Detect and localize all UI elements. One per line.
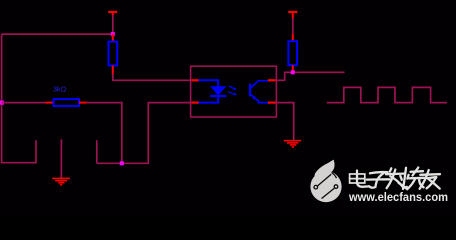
resistor R2 body — [288, 41, 297, 65]
junction node D — [291, 70, 295, 74]
LED D1 triangle — [210, 86, 226, 95]
junction node C — [120, 161, 124, 165]
LED D1 anode wire — [199, 80, 219, 86]
wire left rail down — [1, 34, 3, 163]
logo chinese character fa — [386, 168, 407, 189]
resistor R1 body — [109, 42, 118, 66]
wire VCC2 stem to R2 — [292, 18, 294, 34]
ground GND1 — [52, 178, 70, 184]
junction node A — [111, 32, 115, 36]
Q1 emitter arrowhead — [252, 96, 257, 100]
junction node B — [0, 101, 4, 105]
square wave signal — [327, 87, 447, 102]
logo flame — [314, 160, 336, 179]
resistor R1 lead top — [112, 34, 114, 42]
ground GND2 — [284, 141, 301, 147]
logo chinese character dian — [350, 171, 369, 187]
Q1 collector — [251, 81, 268, 88]
U1 pin 2 cathode stub — [192, 101, 200, 103]
ground GND1 lead — [60, 139, 62, 178]
resistor R3 body — [54, 99, 79, 106]
wire R3 right to node C — [87, 103, 122, 164]
wire bottom row through node C — [97, 162, 149, 164]
logo circle — [310, 171, 341, 202]
logo trace 2 — [322, 188, 335, 198]
U1 pin 3 emitter stub — [268, 101, 276, 103]
Q1 emitter — [251, 95, 268, 103]
svg-text:www.elecfans.com: www.elecfans.com — [348, 190, 448, 204]
phototransistor Q1 base bar — [249, 84, 251, 97]
U1 pin 4 collector stub — [268, 79, 276, 81]
light arrow 1 — [229, 86, 237, 90]
resistor R1 lead bottom — [112, 66, 114, 75]
logo pad 2 — [334, 185, 338, 189]
LED D1 cathode bar — [210, 95, 226, 97]
resistor R2 lead bottom — [292, 65, 294, 72]
resistor R3 lead right — [79, 102, 87, 104]
U1 pin 1 anode stub — [192, 79, 200, 81]
wire stub up at x=96.8 — [96, 140, 98, 163]
wire VCC1 stem to node A — [112, 15, 114, 34]
logo chinese character shao — [400, 168, 424, 190]
logo chinese character you — [420, 170, 440, 189]
logo notch — [331, 173, 336, 179]
wire emitter pin to GND2 — [276, 103, 294, 140]
wire up to opto cathode pin — [148, 103, 191, 165]
wire node B to R3 — [2, 102, 46, 104]
power symbol VCC2 (right T) — [288, 12, 297, 19]
power symbol VCC1 (left T) — [108, 12, 117, 16]
logo pad 1 — [314, 185, 318, 189]
resistor R3 lead left — [45, 102, 53, 104]
resistor R2 lead top — [292, 34, 294, 41]
optocoupler U1 box — [191, 66, 277, 117]
svg-text:3kΩ: 3kΩ — [53, 84, 67, 93]
wire R1 bottom to opto anode pin — [113, 74, 191, 80]
logo chinese character zi — [367, 172, 390, 188]
wire collector pin jog up to node D — [276, 72, 345, 80]
LED D1 cathode wire — [199, 96, 219, 103]
logo trace 1 — [318, 174, 332, 186]
wire node A to left edge — [2, 33, 113, 35]
light arrow 2 — [228, 92, 237, 96]
wire bottom-left corner to stub — [1, 140, 36, 163]
